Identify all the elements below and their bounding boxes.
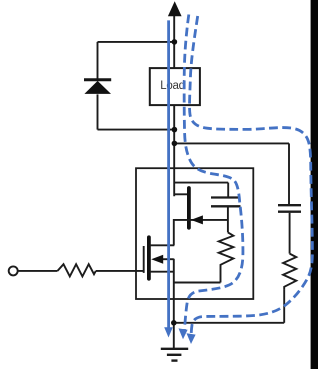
- wire gate input: [18, 270, 58, 272]
- wire bottom of diode loop: [98, 129, 175, 131]
- diode D1 (freewheeling): [84, 80, 111, 94]
- black border band at right edge: [311, 0, 318, 369]
- input terminal: [9, 266, 18, 275]
- clamp path inner arrowhead: [179, 328, 188, 339]
- drain connection: [150, 244, 175, 246]
- resistor R3 (gate input): [58, 264, 96, 276]
- wire diode branch upper vertical: [97, 42, 99, 80]
- resistor R1 (inner): [219, 232, 234, 282]
- clamp bar: [187, 188, 191, 228]
- wire resistor R1 bottom to source node: [174, 282, 221, 284]
- node A junction dot top: [172, 39, 178, 45]
- gate line: [143, 246, 145, 273]
- wire bottom horizontal to right branch: [174, 322, 284, 324]
- load box: [150, 68, 200, 105]
- transistor Q1 power MOSFET: [144, 237, 175, 278]
- clamp current path inner (blue dashed): [184, 15, 243, 332]
- wire main vertical supply line (top section): [173, 14, 175, 197]
- node C junction dot to right branch: [172, 141, 178, 147]
- ground: [161, 349, 188, 361]
- wire right branch lower vertical: [283, 289, 285, 323]
- wire right branch upper vertical: [288, 143, 290, 204]
- body arrowhead: [151, 255, 163, 264]
- capacitor C1 (inner): [211, 198, 241, 207]
- emitter arrow line: [174, 219, 228, 221]
- node B junction dot below load: [172, 127, 178, 133]
- collector stub: [174, 193, 188, 195]
- wire top horizontal to diode branch: [98, 41, 175, 43]
- inner device box: [136, 168, 253, 299]
- source connection: [150, 271, 174, 273]
- arrowhead top of supply line: [168, 1, 182, 16]
- demagnetization path outer arrowhead: [187, 333, 196, 344]
- emitter arrowhead: [191, 215, 203, 224]
- transistor Q2 clamp device: [174, 188, 228, 228]
- wire resistor to gate: [96, 270, 144, 272]
- wire capacitor C1 top lead: [227, 183, 229, 197]
- capacitor C2 (outer right): [278, 205, 301, 212]
- wire capacitor C1 bottom lead: [227, 207, 229, 232]
- body arrow line: [160, 258, 174, 260]
- demagnetization current path outer (blue dashed): [190, 16, 313, 337]
- wire clamp top rail: [174, 182, 229, 184]
- wire right branch between capacitor and resistor: [289, 213, 291, 254]
- wire main vertical line lower section to ground: [173, 259, 175, 348]
- svg-text:Load: Load: [160, 80, 184, 92]
- node D junction dot at ground: [171, 320, 177, 326]
- wire node to right branch: [174, 142, 289, 144]
- load current arrow (blue solid): [164, 20, 173, 337]
- wire diode branch lower vertical: [97, 94, 99, 129]
- resistor R2 (outer right): [283, 254, 296, 290]
- wire main vertical line middle section (clamp node to drain): [173, 219, 175, 245]
- channel bar: [147, 237, 151, 278]
